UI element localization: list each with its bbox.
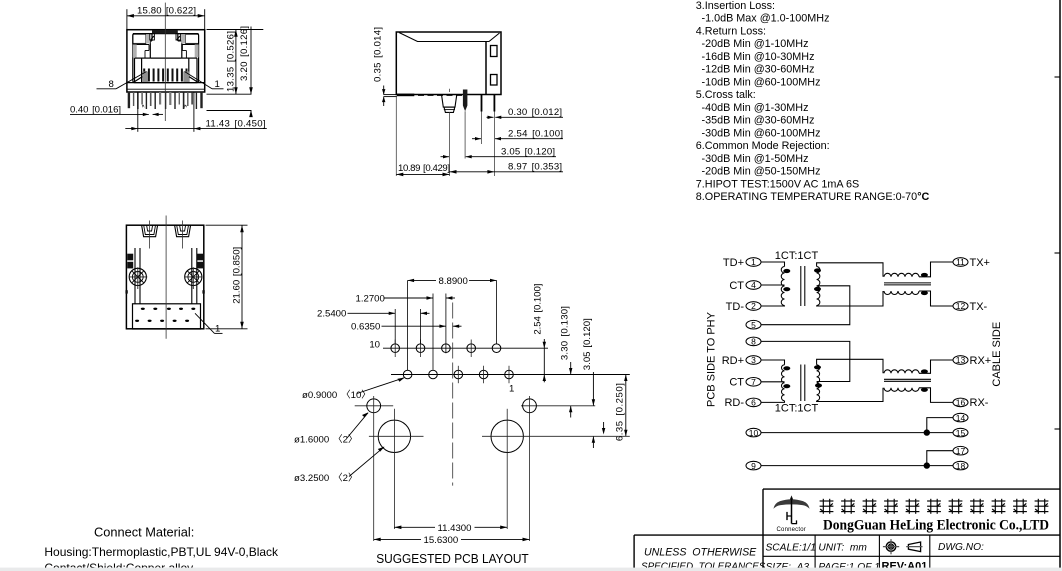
svg-text:16: 16 <box>956 398 966 408</box>
svg-text:Connector: Connector <box>777 527 806 533</box>
hole rows <box>383 347 548 349</box>
T2 polarity dots <box>783 365 822 388</box>
svg-text:-35dB Min @30-60MHz: -35dB Min @30-60MHz <box>702 115 815 127</box>
upper side windows <box>133 34 146 43</box>
svg-text:13.35 [0.526]: 13.35 [0.526] <box>225 31 236 92</box>
centerline <box>452 303 454 486</box>
svg-text:18: 18 <box>956 461 966 471</box>
svg-text:7: 7 <box>751 377 756 387</box>
svg-text:3: 3 <box>751 355 756 365</box>
svg-text:21.60 [0.850]: 21.60 [0.850] <box>231 247 242 304</box>
dim 3.20 right <box>250 27 252 95</box>
side steps <box>133 44 149 46</box>
svg-text:17: 17 <box>956 446 966 456</box>
wire pin7 to T2 center tap <box>761 381 784 383</box>
svg-text:14: 14 <box>956 413 966 423</box>
dim 3.30 [0.130] <box>570 362 572 375</box>
latch windows <box>491 46 498 57</box>
wire junction to pin 14 <box>927 418 953 433</box>
transformer T1 secondary winding <box>817 267 820 306</box>
wire choke L2 to pin 16 <box>919 388 953 403</box>
pin 8 <box>746 337 761 347</box>
svg-text:11.4300: 11.4300 <box>438 523 472 534</box>
transformer T2 primary winding <box>782 365 785 401</box>
projection symbol <box>883 539 923 554</box>
PCBLAYOUT <box>294 276 630 566</box>
pin 5 <box>746 320 761 330</box>
bottom shield tab <box>397 94 415 97</box>
svg-text:SUGGESTED PCB LAYOUT: SUGGESTED PCB LAYOUT <box>376 551 529 566</box>
dim 0.30 <box>487 116 494 118</box>
dim 15.6300 <box>374 538 421 540</box>
dim 15.80 <box>126 9 128 29</box>
choke L1 polarity dots <box>921 273 928 295</box>
leader 1 <box>195 313 215 333</box>
svg-text:8: 8 <box>109 79 114 90</box>
svg-text:TD-: TD- <box>726 301 745 313</box>
transformer T2 secondary winding <box>817 365 820 401</box>
svg-text:CT: CT <box>729 377 744 389</box>
svg-text:2: 2 <box>751 301 756 311</box>
wire choke L1 to pin 12 <box>919 291 953 306</box>
svg-text:0.35 [0.014]: 0.35 [0.014] <box>373 27 384 82</box>
dim 2.5400 <box>394 309 396 344</box>
svg-text:1: 1 <box>751 257 756 267</box>
mounting post right <box>185 267 203 289</box>
svg-text:1CT:1CT: 1CT:1CT <box>775 403 819 415</box>
dim 8.97 <box>450 171 564 173</box>
transformer T1 primary winding <box>781 267 784 306</box>
svg-text:3.05 [0.120]: 3.05 [0.120] <box>501 147 555 158</box>
svg-text:UNIT: mm: UNIT: mm <box>818 543 867 554</box>
svg-text:3.05 [0.120]: 3.05 [0.120] <box>582 318 593 370</box>
svg-text:Housing:Thermoplastic,PBT,UL 9: Housing:Thermoplastic,PBT,UL 94V-0,Black <box>44 545 279 559</box>
T1 polarity dots <box>783 268 821 291</box>
wire pin9 to pin18 <box>761 465 953 467</box>
svg-text:15.80 [0.622]: 15.80 [0.622] <box>137 5 196 16</box>
svg-text:2.54 [0.100]: 2.54 [0.100] <box>533 284 544 335</box>
wire pin1 to T1 <box>761 262 784 267</box>
svg-text:-30dB Min @60-100MHz: -30dB Min @60-100MHz <box>702 127 821 139</box>
wire T1 secondary bottom to choke L1 <box>817 291 883 306</box>
pin 17 <box>953 446 968 456</box>
centerline <box>165 216 167 339</box>
svg-text:-12dB Min @30-60MHz: -12dB Min @30-60MHz <box>702 64 815 76</box>
svg-text:-30dB Min @1-50MHz: -30dB Min @1-50MHz <box>702 153 809 165</box>
cavity sides <box>141 58 143 83</box>
svg-text:9: 9 <box>751 461 756 471</box>
front view body <box>127 30 205 92</box>
choke L2 top winding <box>884 370 919 374</box>
wire T1 secondary top to choke L1 <box>817 263 883 277</box>
pin 2 <box>746 301 761 311</box>
svg-text:1: 1 <box>215 79 220 90</box>
pin 1 <box>746 257 761 267</box>
svg-text:Connect Material:: Connect Material: <box>94 525 194 540</box>
big holes <box>355 405 394 407</box>
pin 4 <box>746 280 761 290</box>
choke L1 bottom winding <box>884 291 919 295</box>
vertical bars <box>134 248 136 304</box>
svg-text:-40dB Min @1-30MHz: -40dB Min @1-30MHz <box>702 102 809 114</box>
pin 7 <box>746 377 761 387</box>
dim 11.43 bottom <box>137 92 139 132</box>
pin 16 <box>953 398 968 408</box>
svg-text:8: 8 <box>751 337 756 347</box>
choke L2 core <box>884 378 931 380</box>
pin field <box>133 304 201 329</box>
svg-text:DongGuan HeLing Electronic Co.: DongGuan HeLing Electronic Co.,LTD <box>823 517 1049 533</box>
SIDEVIEW <box>373 27 564 176</box>
dim 3.05 [0.120] <box>592 372 594 406</box>
svg-text:0.6350: 0.6350 <box>351 322 380 333</box>
dim 1.2700 <box>432 294 434 370</box>
pin 11 <box>953 257 968 267</box>
svg-text:CT: CT <box>729 280 744 292</box>
svg-text:RD-: RD- <box>724 397 744 409</box>
TITLEBLOCK <box>634 489 1060 571</box>
dim 2.54 [0.100] vertical <box>543 339 545 382</box>
plug slot <box>151 34 153 41</box>
svg-text:ø3.2500 〈2〉: ø3.2500 〈2〉 <box>294 473 358 484</box>
side view body <box>396 32 501 95</box>
svg-text:3.20 [0.126]: 3.20 [0.126] <box>239 26 250 81</box>
svg-text:10.89 [0.429]: 10.89 [0.429] <box>398 163 450 174</box>
pin 14 <box>953 413 968 423</box>
svg-text:-16dB Min @10-30MHz: -16dB Min @10-30MHz <box>702 51 815 63</box>
edge tabs <box>127 254 133 261</box>
svg-text:CABLE SIDE: CABLE SIDE <box>991 322 1003 387</box>
logo <box>790 495 793 499</box>
contact pins <box>481 95 483 112</box>
wire pin2 to T1 <box>761 305 784 308</box>
svg-text:0.30 [0.012]: 0.30 [0.012] <box>508 107 562 118</box>
choke L2 polarity dots <box>921 369 928 392</box>
dim 13.35 right <box>207 29 264 31</box>
junction pin9/17/18 <box>924 462 930 468</box>
svg-text:-10dB Min @60-100MHz: -10dB Min @60-100MHz <box>702 76 821 88</box>
wire pin5 to T1 secondary center tap <box>761 286 850 325</box>
bottom view body <box>126 225 203 329</box>
svg-text:UNLESS OTHERWISE: UNLESS OTHERWISE <box>644 546 757 558</box>
wire pin6 to T2 <box>761 401 784 403</box>
svg-text:3.30 [0.130]: 3.30 [0.130] <box>560 306 571 360</box>
dim 21.60 <box>206 224 248 226</box>
SPECTEXT <box>696 0 930 203</box>
svg-text:6.35 [0.250]: 6.35 [0.250] <box>615 383 626 441</box>
svg-text:RX+: RX+ <box>970 355 992 367</box>
choke L2 bottom winding <box>884 388 919 392</box>
pin 6 <box>746 398 761 408</box>
wire junction to pin 17 <box>927 451 953 466</box>
svg-text:10: 10 <box>369 340 380 351</box>
svg-text:RX-: RX- <box>970 397 989 409</box>
svg-text:8.8900: 8.8900 <box>439 276 468 287</box>
dim 8.8900 <box>407 280 409 370</box>
SCHEMATIC <box>706 250 1003 471</box>
svg-text:11: 11 <box>956 257 965 267</box>
svg-text:-20dB Min @50-150MHz: -20dB Min @50-150MHz <box>702 166 821 178</box>
transformer T2 core <box>800 365 802 402</box>
dim 10.89 <box>395 97 397 176</box>
svg-text:2.54 [0.100]: 2.54 [0.100] <box>508 129 563 140</box>
svg-text:6.Common Mode Rejection:: 6.Common Mode Rejection: <box>696 140 830 152</box>
dim 3.05 <box>441 156 450 158</box>
pin 3 <box>746 355 761 365</box>
svg-text:TD+: TD+ <box>723 257 744 269</box>
centerline <box>164 3 166 121</box>
dim 0.6350 <box>382 325 446 327</box>
svg-text:3.Insertion Loss:: 3.Insertion Loss: <box>696 0 775 12</box>
wire choke L2 to pin 13 <box>919 360 953 373</box>
wire T2 secondary top to choke L2 <box>817 359 883 373</box>
shield pin <box>463 90 468 112</box>
sheet border <box>1059 0 1061 571</box>
svg-text:10: 10 <box>749 428 759 438</box>
junction pin10/14/15 <box>924 429 930 435</box>
svg-text:ø0.9000 〈10〉: ø0.9000 〈10〉 <box>302 390 371 401</box>
svg-text:5: 5 <box>751 320 756 330</box>
company chinese name <box>820 499 1049 514</box>
top slot dark band <box>152 30 178 33</box>
choke L1 top winding <box>884 273 919 276</box>
bottom strip <box>0 568 1062 571</box>
svg-text:8.OPERATING TEMPERATURE RANGE:: 8.OPERATING TEMPERATURE RANGE:0-70°C <box>696 191 930 203</box>
svg-text:2.5400: 2.5400 <box>317 309 346 320</box>
latch hooks <box>150 34 155 40</box>
plastic post <box>442 95 457 108</box>
wire choke L1 to pin 11 <box>919 262 953 277</box>
svg-text:5.Cross talk:: 5.Cross talk: <box>696 89 756 101</box>
svg-text:11.43 [0.450]: 11.43 [0.450] <box>206 118 266 129</box>
contact comb <box>144 69 186 82</box>
svg-text:1: 1 <box>509 384 514 395</box>
top cutouts <box>142 225 158 237</box>
svg-text:RD+: RD+ <box>722 355 744 367</box>
svg-text:-1.0dB Max @1.0-100MHz: -1.0dB Max @1.0-100MHz <box>702 13 830 25</box>
transformer T1 core <box>800 266 802 306</box>
svg-text:TX+: TX+ <box>970 257 990 269</box>
svg-text:8.97 [0.353]: 8.97 [0.353] <box>508 162 562 173</box>
svg-text:13: 13 <box>956 355 966 365</box>
wire pin4 to T1 center tap <box>761 284 784 286</box>
choke L1 core <box>884 282 931 284</box>
svg-text:6: 6 <box>751 398 756 408</box>
svg-text:7.HIPOT TEST:1500V AC 1mA 6S: 7.HIPOT TEST:1500V AC 1mA 6S <box>696 178 859 190</box>
FRONTVIEW <box>70 3 267 132</box>
svg-text:15.6300: 15.6300 <box>424 535 459 546</box>
svg-text:1.2700: 1.2700 <box>356 293 385 304</box>
dim 0.35 left <box>384 94 398 96</box>
BOTTOMVIEW <box>125 216 247 339</box>
svg-text:DWG.NO:: DWG.NO: <box>938 542 984 553</box>
pin 15 <box>953 428 968 438</box>
pin 18 <box>953 461 968 471</box>
svg-text:4: 4 <box>751 280 756 290</box>
dim 11.4300 <box>394 526 435 528</box>
svg-text:15: 15 <box>956 428 966 438</box>
mounting post left <box>129 267 147 289</box>
svg-text:0.40 [0.016]: 0.40 [0.016] <box>70 104 121 115</box>
wire pin3 to T2 <box>761 360 784 365</box>
svg-text:-20dB Min @1-10MHz: -20dB Min @1-10MHz <box>702 38 809 50</box>
wire T2 secondary bottom to choke L2 <box>817 388 883 402</box>
pin 12 <box>953 301 968 311</box>
svg-text:SCALE:1/1: SCALE:1/1 <box>766 543 816 554</box>
svg-text:12: 12 <box>956 301 966 311</box>
svg-text:TX-: TX- <box>970 301 988 313</box>
dim 2.54 <box>472 138 481 140</box>
wire pin10 to pin15 <box>761 432 953 434</box>
wire pin8 to T2 secondary center tap <box>761 341 850 381</box>
svg-text:4.Return Loss:: 4.Return Loss: <box>696 25 766 37</box>
dim 0.40 left <box>70 113 149 115</box>
legs <box>129 92 202 109</box>
svg-text:PCB SIDE TO PHY: PCB SIDE TO PHY <box>706 311 718 407</box>
pin 9 <box>746 461 761 471</box>
pin 13 <box>953 355 968 365</box>
dim 6.35 [0.250] <box>625 375 627 437</box>
svg-text:1CT:1CT: 1CT:1CT <box>775 250 819 262</box>
pin 10 <box>746 428 761 438</box>
